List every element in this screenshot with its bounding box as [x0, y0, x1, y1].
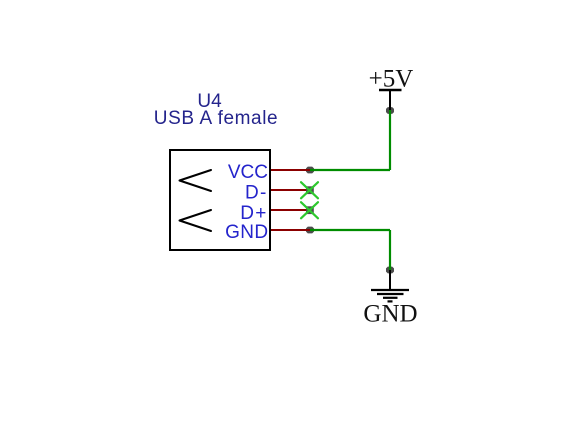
svg-text:D-: D- — [245, 183, 267, 204]
svg-text:+5V: +5V — [369, 66, 414, 93]
pin end square D+ — [306, 206, 314, 214]
no-connect flag on D- — [301, 182, 318, 198]
wire GND horizontal — [310, 229, 390, 231]
wire GND vertical to ground — [389, 230, 391, 270]
junction at +5V power pin — [386, 107, 394, 114]
junction at VCC pin — [306, 167, 314, 174]
pin GND — [271, 229, 310, 231]
chevron contact symbol 2 — [180, 210, 212, 231]
svg-text:GND: GND — [225, 222, 268, 243]
wire VCC vertical to +5V — [389, 110, 391, 170]
svg-text:D+: D+ — [240, 203, 267, 224]
svg-text:VCC: VCC — [228, 162, 268, 183]
no-connect flag on D+ — [301, 202, 318, 218]
pin VCC — [271, 169, 310, 171]
wire VCC horizontal — [310, 169, 390, 171]
chevron contact symbol 1 — [180, 170, 212, 191]
ground symbol bar 1 — [371, 289, 409, 291]
ground symbol bar 2 — [377, 293, 404, 295]
junction at GND power pin — [386, 267, 394, 274]
pin D- — [271, 189, 310, 191]
svg-text:USB A female: USB A female — [154, 108, 278, 129]
power symbol +5V bar — [379, 89, 402, 91]
svg-text:GND: GND — [363, 301, 417, 328]
component U4 body (USB A female connector outline) — [170, 150, 270, 250]
ground symbol bar 4 — [388, 300, 393, 302]
power symbol +5V pin line — [389, 90, 391, 110]
ground symbol bar 3 — [383, 297, 398, 299]
junction at GND pin — [306, 227, 314, 234]
pin end square D- — [306, 186, 314, 194]
ground symbol pin line — [389, 270, 391, 289]
pin D+ — [271, 209, 310, 211]
